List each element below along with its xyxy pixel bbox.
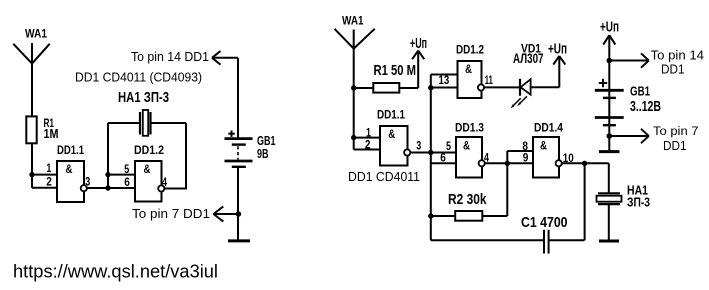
svg-text:5: 5 — [124, 162, 129, 176]
resistor R1 50M — [354, 62, 419, 93]
wire DD1.1 out to node — [410, 152, 456, 154]
svg-text:ЗП-3: ЗП-3 — [627, 195, 650, 210]
svg-text:&: & — [465, 62, 472, 76]
resistor R2 30k — [431, 192, 487, 221]
plus sign battery left — [228, 131, 234, 137]
svg-text:9В: 9В — [257, 147, 269, 161]
svg-text:3: 3 — [416, 138, 421, 152]
node: dot DD1.4 out / C1 — [582, 161, 587, 166]
antenna WA1 — [13, 43, 49, 117]
op gate DD1.2 — [134, 143, 164, 201]
svg-text:+Uп: +Uп — [600, 18, 619, 35]
svg-text:+Uп: +Uп — [548, 40, 567, 57]
wire/arrow to pin 14 — [212, 51, 238, 139]
svg-text:&: & — [388, 127, 395, 141]
svg-text:+Uп: +Uп — [410, 35, 427, 52]
op gate DD1.1 — [57, 143, 84, 202]
LED emission arrows — [514, 96, 527, 105]
op gate DD1.2 (right) — [456, 45, 484, 99]
wire vertical x=507.3 (pin8 tie / R2) — [482, 151, 533, 216]
wire battery minus down — [237, 167, 239, 240]
svg-text:https://www.qsl.net/va3iul: https://www.qsl.net/va3iul — [13, 261, 218, 281]
ground left — [228, 239, 250, 242]
node: junction dot pin5 — [105, 172, 110, 177]
LED VD1 AL307 — [513, 43, 559, 96]
wire DD1.2 out to feedback right — [164, 123, 186, 190]
op gate DD1.1 (right) — [377, 107, 408, 165]
svg-text:&: & — [540, 139, 547, 153]
battery GB1 9V — [225, 139, 253, 167]
node: dot bus/pin3 — [428, 150, 433, 155]
svg-text:9: 9 — [523, 151, 529, 165]
node: antenna/pin1 junction dot — [351, 135, 356, 140]
wire DD1.3 out to DD1.4 pin 9 — [485, 162, 533, 164]
svg-text:DD1: DD1 — [661, 62, 685, 77]
svg-text:DD1.4: DD1.4 — [534, 121, 563, 135]
wire feedback bottom (DD1.3 input to C1) — [431, 239, 544, 241]
svg-text:C1 4700: C1 4700 — [521, 215, 568, 231]
svg-text:3..12В: 3..12В — [630, 98, 661, 115]
wire pin 5 — [108, 174, 135, 176]
output bubble DD1.2 (right) — [478, 84, 484, 90]
svg-text:DD1.1: DD1.1 — [57, 143, 84, 157]
piezo HA1 ZP-3 (right) — [597, 163, 651, 239]
svg-text:DD1 CD4011 (CD4093): DD1 CD4011 (CD4093) — [75, 70, 202, 85]
node: antenna/R1 junction dot — [351, 85, 356, 90]
svg-text:АЛ307: АЛ307 — [513, 50, 544, 66]
power +Un arrow (rail) — [603, 35, 615, 151]
wires antenna to DD1.1 inputs — [354, 138, 380, 150]
node: dot bus/pin12 — [428, 85, 433, 90]
svg-text:4: 4 — [484, 150, 489, 164]
wire to pin 12 — [431, 87, 458, 89]
op gate DD1.3 — [455, 121, 484, 178]
antenna WA1 (right) — [335, 29, 375, 150]
svg-text:DD1.1: DD1.1 — [377, 107, 405, 121]
node: junction dot to pin 7 — [236, 211, 242, 217]
wire DD1.2 out to LED — [484, 86, 520, 88]
svg-text:5: 5 — [446, 139, 451, 153]
svg-text:R1 50 M: R1 50 M — [374, 62, 417, 79]
output bubble DD1.2 — [158, 185, 164, 191]
ground under battery (right) — [599, 150, 620, 153]
node: dot rail to pin 7 — [607, 133, 613, 139]
node: dot rail to pin 14 — [607, 58, 613, 64]
output bubble DD1.4 — [556, 160, 562, 166]
wire resistor to gate inputs — [32, 143, 57, 188]
svg-text:13: 13 — [439, 73, 450, 87]
svg-text:&: & — [463, 139, 470, 153]
svg-text:1: 1 — [46, 161, 51, 175]
wire DD1.4 out to HA1 — [562, 162, 609, 164]
svg-text:DD1.2: DD1.2 — [134, 143, 164, 157]
svg-text:11: 11 — [485, 73, 493, 87]
svg-text:To pin 14 DD1: To pin 14 DD1 — [131, 49, 209, 64]
wire/arrow to pin 14 (right) — [609, 53, 649, 67]
resistor R1 — [26, 116, 58, 144]
output bubble DD1.3 — [479, 160, 485, 166]
wire DD1.1 out to DD1.2 pin6 — [87, 187, 135, 189]
svg-text:GB1: GB1 — [630, 84, 650, 99]
output bubble DD1.1 (right) — [404, 149, 410, 155]
wire feedback vertical left — [107, 123, 109, 188]
op gate DD1.4 — [533, 121, 563, 178]
svg-text:To pin 7: To pin 7 — [653, 126, 699, 138]
svg-text:DD1.3: DD1.3 — [455, 121, 484, 135]
node: junction dot feedback bottom — [105, 185, 110, 190]
svg-text:1M: 1M — [44, 126, 59, 141]
plus sign battery right — [599, 79, 607, 87]
output bubble DD1.1 — [81, 185, 87, 191]
capacitor C1 4700 — [521, 215, 568, 254]
svg-text:WA1: WA1 — [342, 14, 364, 28]
power +Un arrow (LED) — [553, 56, 565, 87]
wire C1 to DD1.4 output — [549, 163, 585, 240]
wire main vertical bus x=430.8 — [430, 75, 432, 241]
svg-text:&: & — [144, 162, 151, 176]
svg-text:DD1 CD4011: DD1 CD4011 — [348, 169, 420, 184]
node: dot DD1.3 out — [505, 161, 510, 166]
ground under HA1 (right) — [599, 240, 619, 243]
battery GB1 3..12V — [595, 90, 624, 125]
svg-text:GB1: GB1 — [257, 134, 276, 148]
svg-text:DD1: DD1 — [663, 139, 687, 153]
svg-text:To pin 14: To pin 14 — [651, 47, 705, 62]
svg-text:To pin 7 DD1: To pin 7 DD1 — [132, 206, 210, 221]
svg-text:DD1.2: DD1.2 — [456, 45, 484, 57]
wire to pin 6 (right DD1.3) — [431, 162, 456, 164]
svg-text:2: 2 — [46, 174, 52, 188]
piezo HA1 ZP-3 (crystal symbol) — [108, 90, 186, 136]
node: junction dot antenna/pin1 — [29, 172, 34, 177]
svg-text:WA1: WA1 — [25, 27, 47, 41]
svg-text:HA1 ЗП-3: HA1 ЗП-3 — [118, 90, 169, 106]
svg-text:2: 2 — [365, 138, 371, 152]
svg-text:&: & — [66, 162, 73, 176]
svg-text:6: 6 — [440, 151, 446, 165]
power +Un arrow (R1) — [412, 51, 424, 88]
svg-text:R2 30k: R2 30k — [448, 192, 487, 208]
svg-text:6: 6 — [124, 175, 130, 189]
node: dot bus/R2 — [428, 213, 433, 218]
wire to pin 13 — [431, 74, 458, 76]
wire/arrow to pin 7 (right) — [609, 129, 649, 143]
wire/arrow to pin 7 — [214, 206, 239, 221]
